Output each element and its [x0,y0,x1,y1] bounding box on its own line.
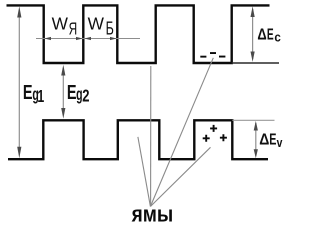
svg-text:ямы: ямы [131,202,174,227]
Eg1 dimension arrow [18,10,20,153]
reference line at valence band top right of last plateau [232,119,274,121]
svg-text:v: v [277,136,283,150]
svg-text:Я: Я [69,19,78,39]
svg-text:E: E [267,25,274,43]
hole plus sign middle [210,125,217,132]
electron minus sign right [219,56,225,58]
svg-text:E: E [23,81,33,104]
dimension line for W labels [36,38,140,40]
svg-text:W: W [52,13,69,33]
valence band profile Ev [8,120,268,159]
pointer line to valence well 2 [138,137,151,207]
svg-text:c: c [274,30,281,45]
electron minus sign left [200,56,206,58]
arrowhead W_ya right [76,37,83,40]
pointer line to conduction well 3 [150,58,213,207]
svg-text:W: W [88,13,105,33]
pointer line to valence well 3 [150,147,210,206]
svg-text:Δ: Δ [259,132,269,149]
hole plus sign left [203,135,210,142]
Eg2 dimension arrow [62,68,64,114]
arrowhead W_b right [110,37,117,40]
svg-text:E: E [67,81,77,104]
dEv dimension arrow [255,123,257,156]
arrowhead W_b left [84,37,91,40]
svg-text:1: 1 [37,87,44,107]
reference line at conduction well floor under right barrier [232,62,279,64]
arrowhead W_ya left [44,37,51,40]
conduction band profile Ec [7,5,270,63]
svg-text:E: E [269,130,276,148]
svg-text:2: 2 [82,87,89,106]
hole plus sign right [220,134,227,141]
pointer line to conduction well 2 [150,66,152,207]
svg-text:Б: Б [106,19,114,39]
dEc dimension arrow [252,9,254,59]
electron minus sign middle [210,52,216,54]
svg-text:Δ: Δ [257,26,266,43]
